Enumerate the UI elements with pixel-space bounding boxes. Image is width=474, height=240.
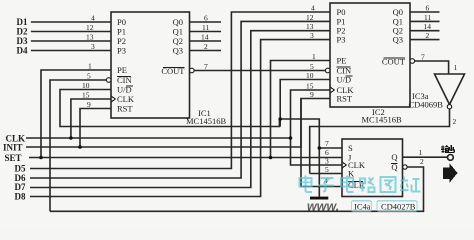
wire IC4 Qbar pin 2 feedback to IC1 CIN [50,167,424,211]
wire IC2 CLK pin 15 riser to CLK bus and IC4 CLK pin 3 [291,90,343,165]
svg-text:SET: SET [5,153,22,163]
svg-text:4: 4 [91,14,95,23]
wire IC2 PE pin 1 riser to SET bus [271,61,331,158]
wire IC1 PE pin 1 [41,70,111,158]
svg-text:P3: P3 [337,35,346,45]
SET bus to IC4 J pin 6 [29,157,342,159]
wire IC1 Q0 pin 6 stub [190,21,222,23]
wire IC2 COUT pin 7 to inverter input pin 1 [415,61,449,74]
bubble IC1 COUT pin 7 [190,68,195,73]
output terminal circle [448,155,454,161]
svg-text:10: 10 [82,81,90,90]
svg-text:14: 14 [424,22,432,31]
svg-text:6: 6 [426,4,430,13]
D7 bus riser to IC2 P2 pin 13 [30,31,330,188]
overline IC1 U/D D only [126,85,133,87]
svg-text:9: 9 [310,90,314,99]
svg-text:2: 2 [204,42,208,51]
svg-text:Q2: Q2 [173,36,183,46]
svg-text:K: K [348,169,355,179]
svg-text:2: 2 [426,31,430,40]
svg-text:CD4069B: CD4069B [409,100,444,110]
junction INIT bus IC1 RST [78,145,82,149]
svg-text:D5: D5 [15,163,26,173]
wire IC1 CIN pin 5 riser to bottom feedback [50,80,106,211]
bubble IC1 CIN pin 5 [106,78,111,83]
wire IC2 RST pin 9 riser to IC4 CLR pin 4 [301,99,342,187]
wire IC1 Q1 pin 11 stub [190,31,222,33]
IC1 internal pin labels [117,17,185,114]
wire IC2 Q0 pin 6 stub [410,11,440,13]
IC1 overlines [117,68,185,87]
svg-text:P2: P2 [117,36,126,46]
wire IC1 Q3 pin 2 stub [190,50,222,52]
svg-text:P3: P3 [117,46,126,56]
CLK bus [26,137,291,139]
svg-text:INIT: INIT [3,142,23,152]
svg-text:3: 3 [91,42,95,51]
svg-text:Q3: Q3 [173,46,183,56]
wire IC2 Q2 pin 14 stub [410,30,440,32]
wire IC1 U/D pin 10 to U/D net [60,90,279,127]
svg-text:RST: RST [337,94,353,104]
clock edge marker IC2 CLK [330,87,334,93]
svg-text:7: 7 [421,53,425,62]
IC1 counter MC14516B body [111,12,190,118]
svg-text:7: 7 [325,139,329,148]
bubble IC2 CIN pin 5 [325,68,330,73]
svg-text:5: 5 [325,165,329,174]
svg-text:15: 15 [82,91,90,100]
cyan watermark row big characters dian zi dian lu tu zhan [300,176,421,193]
junction U/D net node [278,117,282,121]
junction SET bus IC2 PE [269,156,273,160]
svg-text:D2: D2 [17,27,28,37]
wire IC1 COUT pin 7 to IC2 CIN pin 5 [194,70,325,72]
clock edge marker IC4 CLK [342,162,346,168]
D8 bus riser to IC2 P3 pin 3 [30,40,330,197]
svg-text:Q3: Q3 [393,35,403,45]
chip name labels [186,91,443,212]
cyan watermark boxes around chip name [352,201,418,211]
overline IC2 U/D D only [346,75,353,77]
cyan watermark www row [307,200,339,214]
INIT bus [26,99,301,148]
junction SET bus IC1 PE [39,156,43,160]
junction CLK bus IC2 [289,136,293,140]
svg-text:RST: RST [117,104,133,114]
overline IC4 CLR [348,181,363,183]
overline IC4 Qbar [391,163,398,165]
wire U/D node to S net vertical [280,119,319,197]
IC2 internal pin labels [337,7,406,104]
svg-text:D4: D4 [17,46,28,56]
ground bar [310,197,328,200]
wire IC4 Q pin 1 to output terminal [403,156,448,158]
svg-text:CD4027B: CD4027B [381,202,416,212]
bubble IC2 COUT pin 7 [410,59,415,64]
wire IC1 RST pin 9 riser [80,109,111,148]
svg-text:7: 7 [204,62,208,71]
junction CLK bus IC1 [69,136,73,140]
svg-text:5: 5 [87,72,91,81]
IC4a flip-flop CD4027B body [342,139,403,197]
svg-text:13: 13 [306,22,314,31]
svg-text:PE: PE [117,65,127,75]
inverter output pin 2 wire to IC4 K [310,109,450,174]
svg-text:Q0: Q0 [173,17,183,27]
svg-text:www.: www. [307,200,339,214]
svg-text:CLK: CLK [117,94,135,104]
IC2 overlines [337,58,406,76]
svg-text:11: 11 [202,23,209,32]
svg-text:P0: P0 [117,17,126,27]
wire IC2 Q3 pin 2 stub [410,39,440,41]
svg-text:13: 13 [86,33,94,42]
output arrow watermark [443,163,458,183]
svg-text:1: 1 [454,63,458,72]
left input labels [3,17,28,201]
svg-text:6: 6 [204,14,208,23]
svg-text:9: 9 [87,100,91,109]
svg-text:IC4a: IC4a [354,202,371,212]
IC2 counter MC14516B body [330,3,410,107]
wire IC1 Q2 pin 14 stub [190,40,222,42]
overline IC2 CIN [337,66,351,68]
svg-text:14: 14 [201,33,209,42]
svg-text:2: 2 [453,117,457,126]
wire D3 to IC1 P2 pin 13 [31,40,111,42]
svg-text:MC14516B: MC14516B [186,116,226,126]
clock edge marker IC1 CLK [111,96,115,102]
svg-text:10: 10 [306,71,314,80]
wire IC1 CLK pin 15 riser [71,99,111,138]
svg-text:12: 12 [306,13,314,22]
svg-text:4: 4 [311,4,315,13]
D6 bus riser to IC2 P1 pin 12 [30,21,330,178]
wire D1 to IC1 P0 pin 4 [31,21,111,23]
svg-text:1: 1 [419,148,423,157]
svg-text:PE: PE [337,56,347,66]
wire IC2 Q1 pin 11 stub [410,20,440,22]
svg-text:D3: D3 [17,36,28,46]
op-amp style inverter IC3a CD4069B triangle [435,74,465,105]
svg-text:5: 5 [310,62,314,71]
svg-text:P1: P1 [117,27,126,37]
svg-text:D8: D8 [15,192,26,202]
svg-text:S: S [348,143,353,153]
bubble IC4 Qbar pin 2 [403,165,407,169]
overline IC1 CIN [117,76,131,78]
wire IC4 K pin 5 from inverter [310,173,342,175]
svg-text:12: 12 [86,23,94,32]
wire D2 to IC1 P1 pin 12 [31,31,111,33]
svg-text:D1: D1 [17,17,28,27]
wire D4 to IC1 P3 pin 3 [31,50,111,52]
svg-text:11: 11 [424,13,431,22]
junction S net node [318,146,322,150]
svg-text:3: 3 [310,31,314,40]
svg-text:6: 6 [325,148,329,157]
svg-text:Q: Q [391,152,397,162]
svg-text:2: 2 [420,157,424,166]
svg-text:1: 1 [88,62,92,71]
wire IC2 U/D pin 10 riser to U/D net [280,80,330,127]
IC4 internal pin labels [348,143,398,190]
bubble inverter IC3a output [447,105,451,109]
D5 bus riser to IC2 P0 pin 4 [30,12,330,169]
svg-text:MC14516B: MC14516B [362,115,402,125]
svg-text:1: 1 [312,52,316,61]
IC4 overlines [348,164,398,182]
overline IC2 COUT [384,57,406,59]
wire IC4 S pin 7 [319,147,342,149]
output chinese label shuchu drawn strokes [441,145,454,153]
overline IC1 COUT [163,67,185,69]
svg-text:Q1: Q1 [173,27,183,37]
